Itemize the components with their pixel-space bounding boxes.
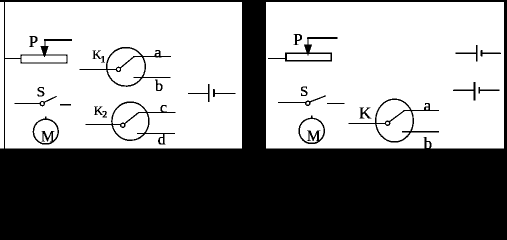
svg-text:a: a: [424, 96, 432, 115]
svg-text:c: c: [160, 98, 167, 116]
svg-text:M: M: [41, 128, 55, 145]
svg-text:P: P: [29, 32, 38, 51]
svg-text:1: 1: [101, 54, 106, 65]
svg-text:b: b: [155, 78, 163, 95]
svg-text:b: b: [424, 134, 433, 153]
svg-text:d: d: [158, 132, 166, 149]
svg-text:a: a: [154, 43, 161, 61]
svg-text:K: K: [359, 103, 372, 122]
svg-text:M: M: [307, 128, 321, 145]
svg-text:P: P: [293, 30, 302, 49]
svg-text:2: 2: [102, 110, 107, 121]
svg-text:S: S: [37, 85, 45, 101]
svg-text:S: S: [300, 84, 308, 100]
